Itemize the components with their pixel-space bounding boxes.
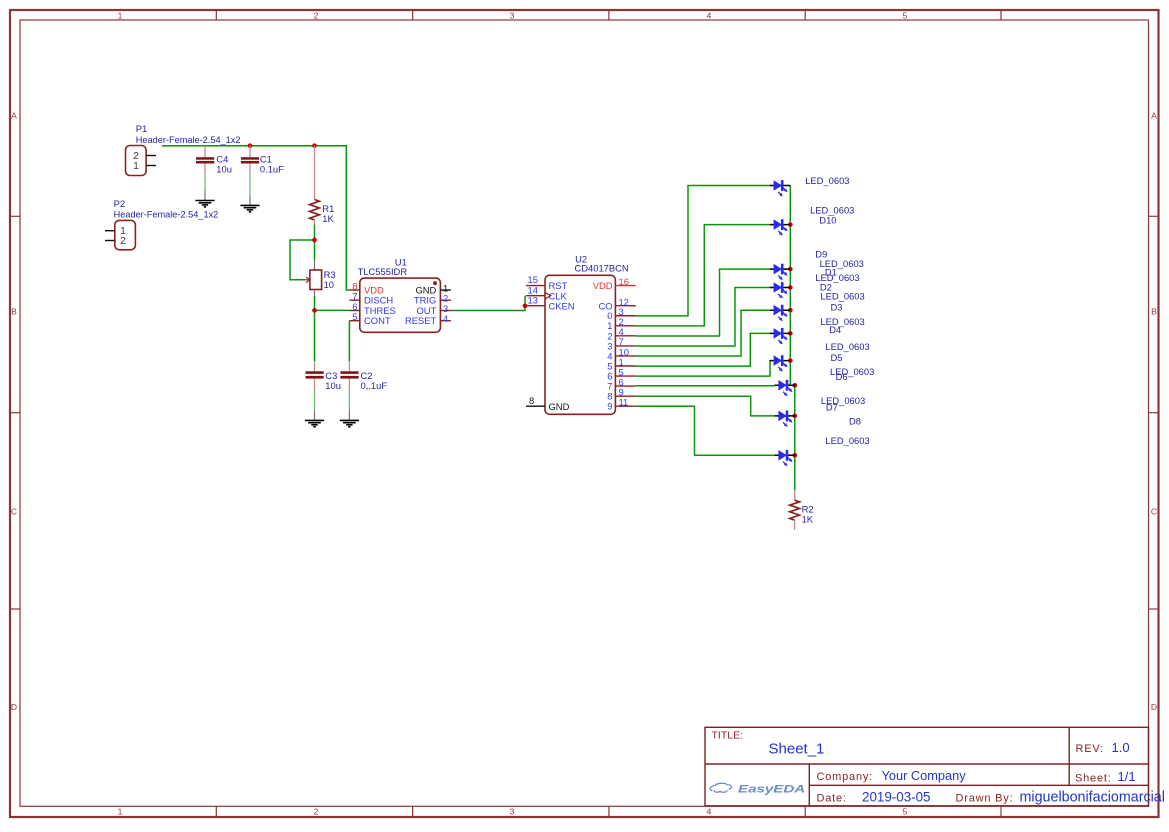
U2 pin names right <box>593 280 613 411</box>
frame row ticks left <box>10 216 20 609</box>
junction bus D5 <box>788 358 793 363</box>
svg-text:Date:: Date: <box>817 793 847 805</box>
svg-text:1.0: 1.0 <box>1112 740 1130 755</box>
svg-text:RESET: RESET <box>405 315 437 326</box>
wire U2 pin1 to LED D4 <box>636 333 770 366</box>
svg-text:CD4017BCN: CD4017BCN <box>575 263 629 274</box>
svg-text:11: 11 <box>619 397 629 408</box>
svg-text:1K: 1K <box>322 213 334 224</box>
LED D3 <box>770 305 791 321</box>
junction bus D10 <box>788 222 793 227</box>
connector P1 body <box>126 146 147 176</box>
frame column ticks top <box>216 10 1001 20</box>
svg-text:4: 4 <box>707 11 712 21</box>
potentiometer R3 <box>304 260 322 296</box>
svg-text:2: 2 <box>314 807 319 817</box>
svg-text:TITLE:: TITLE: <box>712 730 744 742</box>
frame row labels left <box>11 110 17 712</box>
svg-text:D5: D5 <box>831 352 843 363</box>
svg-text:Sheet_1: Sheet_1 <box>769 741 825 758</box>
wire U2 pin6 to LED D6 <box>636 385 775 387</box>
svg-text:Drawn By:: Drawn By: <box>956 793 1014 805</box>
svg-text:10: 10 <box>324 279 334 290</box>
svg-text:1/1: 1/1 <box>1118 769 1136 784</box>
title block row divider 2 <box>809 784 1148 786</box>
resistor R1 <box>310 146 320 225</box>
svg-text:D3: D3 <box>831 301 843 312</box>
U1 pin names right <box>405 285 437 327</box>
ground under C1 <box>240 196 259 212</box>
U2 pin numbers left <box>528 274 538 406</box>
U2 output pin 4 <box>615 335 635 337</box>
U1 pin names left <box>364 285 396 327</box>
LED D8 <box>775 450 796 466</box>
svg-text:Your Company: Your Company <box>882 768 967 783</box>
junction R1 R3 wiper <box>312 238 317 243</box>
capacitor C1 <box>241 146 259 175</box>
capacitor C3 <box>306 361 324 390</box>
C1 ground pin <box>249 174 251 195</box>
svg-text:Sheet:: Sheet: <box>1075 773 1112 785</box>
wire LED cathode bus <box>790 186 795 491</box>
junction bus D1 <box>788 267 793 272</box>
op-amp U1 body <box>360 278 441 332</box>
wire R3 wiper loop <box>290 240 315 280</box>
frame row labels right <box>1151 110 1157 712</box>
svg-text:2: 2 <box>120 236 126 247</box>
U1 pin 2 TRIG <box>440 299 451 301</box>
U1 pin 4 RESET <box>440 320 451 322</box>
svg-text:D: D <box>1151 702 1157 712</box>
U2 output pin 11 <box>615 405 635 407</box>
U2 output pin 6 <box>615 385 635 387</box>
svg-text:C: C <box>11 507 17 517</box>
title block rev cell divider <box>1068 727 1070 785</box>
U1 pin1 marker dot <box>433 281 437 285</box>
P1 pin 2 <box>146 155 156 157</box>
junction bus D3 <box>788 308 793 313</box>
junction bus D7 <box>792 414 797 419</box>
svg-text:D7: D7 <box>826 402 838 413</box>
U2 pin numbers right <box>619 276 629 407</box>
frame column labels top <box>118 11 908 21</box>
capacitor C4 <box>196 146 214 175</box>
svg-text:10u: 10u <box>325 380 341 391</box>
svg-text:3: 3 <box>510 807 515 817</box>
svg-text:C: C <box>1151 507 1157 517</box>
EasyEDA logo cloud <box>710 783 731 792</box>
svg-text:GND: GND <box>549 401 570 412</box>
C3 ground pin <box>314 391 316 411</box>
svg-text:CONT: CONT <box>364 315 391 326</box>
C4 ground pin <box>204 174 206 190</box>
svg-text:D6: D6 <box>836 371 848 382</box>
svg-text:B: B <box>11 306 17 316</box>
U1 pin 5 CONT <box>350 320 360 322</box>
svg-text:LED_0603: LED_0603 <box>805 175 849 186</box>
LED D2 <box>770 282 791 298</box>
svg-text:5: 5 <box>903 11 908 21</box>
svg-text:Company:: Company: <box>817 771 874 783</box>
svg-text:1K: 1K <box>802 514 814 525</box>
LED D7 <box>775 411 796 427</box>
U1 pin numbers left <box>352 280 357 322</box>
connector P2 body <box>115 220 136 249</box>
svg-text:A: A <box>11 110 17 120</box>
U1 pin 1 GND <box>440 289 451 291</box>
wire R1 to R3 <box>314 225 316 260</box>
P2 pin 2 <box>105 240 115 242</box>
svg-text:D8: D8 <box>849 416 861 427</box>
wire CONT to C2 <box>348 321 350 362</box>
U2 output pin 3 <box>615 315 635 317</box>
svg-text:4: 4 <box>707 807 712 817</box>
U2 output pin 9 <box>615 395 635 397</box>
svg-text:2: 2 <box>314 11 319 21</box>
svg-text:Header-Female-2.54_1x2: Header-Female-2.54_1x2 <box>136 135 241 145</box>
svg-text:13: 13 <box>528 294 538 305</box>
LED D4 <box>770 328 791 344</box>
counter U2 body <box>545 275 615 414</box>
junction U2 CKEN <box>523 303 528 308</box>
LED D6 <box>775 380 796 396</box>
U2 CLK clock mark <box>545 292 551 298</box>
svg-text:miguelbonifaciomarcial: miguelbonifaciomarcial <box>1020 790 1165 806</box>
LED D10 <box>770 219 791 235</box>
LED D9 <box>770 180 791 196</box>
wire U2 pin10 to LED D3 <box>636 310 770 356</box>
U1 pin 7 DISCH <box>350 299 360 301</box>
svg-text:B: B <box>1151 306 1157 316</box>
wire U2 pin5 to LED D5 <box>636 361 770 377</box>
svg-text:0,.1uF: 0,.1uF <box>361 380 388 391</box>
P1 pin 1 <box>146 165 156 167</box>
svg-text:2019-03-05: 2019-03-05 <box>862 790 931 805</box>
ground under C4 <box>195 191 214 207</box>
svg-text:D4: D4 <box>829 324 841 335</box>
svg-text:0.1uF: 0.1uF <box>260 163 284 174</box>
svg-text:LED_0603: LED_0603 <box>820 291 864 302</box>
U2 output pin 5 <box>615 375 635 377</box>
svg-text:5: 5 <box>903 807 908 817</box>
U2 output pin 1 <box>615 365 635 367</box>
ground under C3 <box>305 411 324 427</box>
U2 output pin 10 <box>615 355 635 357</box>
U2 output pin 7 <box>615 345 635 347</box>
svg-text:CKEN: CKEN <box>549 300 575 311</box>
svg-text:3: 3 <box>510 11 515 21</box>
svg-text:1: 1 <box>118 11 123 21</box>
wire top power rail <box>162 145 346 147</box>
junction THRES node <box>312 308 317 313</box>
wire U2 pin4 to LED D1 <box>636 269 770 336</box>
wire R3 to C3 <box>314 296 316 361</box>
wire U1 OUT to U2 CLK/CKEN <box>451 296 525 311</box>
svg-text:8: 8 <box>529 395 534 406</box>
P1 pin numbers <box>133 151 139 172</box>
U1 pin 8 VDD <box>350 289 360 291</box>
svg-text:LED_0603: LED_0603 <box>825 435 869 446</box>
svg-text:VDD: VDD <box>593 280 613 291</box>
wire U2 pin9 to LED D7 <box>636 396 775 416</box>
title block outline <box>705 727 1149 806</box>
svg-text:EasyEDA: EasyEDA <box>738 782 805 794</box>
U2 pin 12 CO <box>615 305 635 307</box>
capacitor C2 <box>340 361 358 390</box>
U2 pin 13 CKEN <box>526 305 545 307</box>
wire U2 pin11 to LED D8 <box>636 406 775 455</box>
frame row ticks right <box>1149 216 1159 609</box>
junction bus D6 <box>792 383 797 388</box>
junction bus D4 <box>788 331 793 336</box>
ground under C2 <box>340 411 359 427</box>
svg-text:16: 16 <box>619 276 629 287</box>
junction rail C1 <box>248 143 253 148</box>
P2 pin 1 <box>105 230 115 232</box>
svg-text:Header-Female-2.54_1x2: Header-Female-2.54_1x2 <box>114 209 219 219</box>
U2 pin 16 VDD <box>615 285 635 287</box>
wire U2 pin2 to LED D10 <box>636 225 770 326</box>
wire U2 pin7 to LED D2 <box>636 288 770 347</box>
U2 pin 15 RST <box>526 285 545 287</box>
svg-text:P1: P1 <box>136 123 147 134</box>
title block row divider 1 <box>705 763 1149 765</box>
svg-text:1: 1 <box>133 161 139 172</box>
resistor R2 <box>790 490 800 530</box>
svg-text:P2: P2 <box>114 198 125 209</box>
P2 pin numbers <box>120 226 126 247</box>
U1 pin 3 OUT <box>440 310 451 312</box>
svg-text:1: 1 <box>118 807 123 817</box>
svg-text:D: D <box>11 702 17 712</box>
U2 pin names left <box>549 280 575 412</box>
title block logo cell divider <box>808 764 810 806</box>
LED D1 <box>770 264 791 280</box>
wire U2 pin3 to LED D9 <box>636 186 770 316</box>
U2 pin 14 CLK <box>526 295 545 297</box>
junction bus D2 <box>788 285 793 290</box>
svg-text:4: 4 <box>443 313 448 324</box>
svg-text:9: 9 <box>607 401 612 412</box>
LED D5 <box>770 355 791 371</box>
C2 ground pin <box>348 391 350 411</box>
U1 pin numbers right <box>443 283 448 325</box>
svg-text:A: A <box>1151 110 1157 120</box>
wire rail to U1 VDD <box>346 145 349 290</box>
svg-text:LED_0603: LED_0603 <box>820 316 864 327</box>
svg-text:LED_0603: LED_0603 <box>825 341 869 352</box>
U2 output pin 2 <box>615 325 635 327</box>
U2 pin 8 GND <box>526 405 545 407</box>
svg-text:10u: 10u <box>216 163 232 174</box>
svg-text:TLC555IDR: TLC555IDR <box>358 266 408 277</box>
svg-text:5: 5 <box>352 311 357 322</box>
svg-text:D10: D10 <box>819 214 836 225</box>
frame column ticks bottom <box>216 806 1001 817</box>
junction rail R1 <box>312 143 317 148</box>
svg-text:REV:: REV: <box>1076 743 1104 755</box>
U1 pin 6 THRES <box>350 310 360 312</box>
junction bus D8 <box>792 453 797 458</box>
frame column labels bottom <box>118 807 908 817</box>
wire junction to THRES <box>315 309 350 311</box>
